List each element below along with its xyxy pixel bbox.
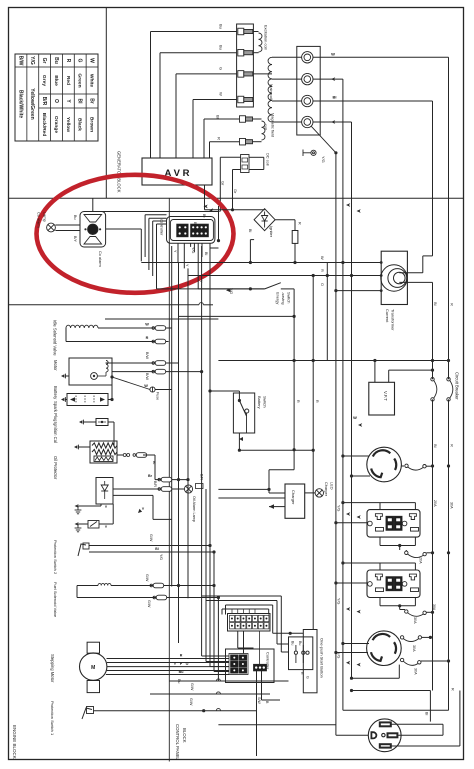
- wire terminal3 Bl to breaker bus: [313, 100, 433, 102]
- svg-text:Bl: Bl: [248, 229, 252, 232]
- wires CN2 pins up: [231, 609, 233, 614]
- svg-text:Motor: Motor: [53, 360, 58, 371]
- svg-text:W: W: [219, 92, 224, 96]
- twist-lock receptacle 1: [367, 447, 402, 482]
- switch 30A twist2 lower: [400, 658, 403, 661]
- wire CN4 feed: [259, 631, 261, 664]
- wire controller loop 4: [152, 221, 154, 276]
- wire twist2 feed 2: [336, 652, 368, 654]
- current transformer: [381, 251, 407, 304]
- wire gfci1 top: [343, 502, 416, 504]
- bus engine 3: [187, 268, 189, 598]
- motor starter: [69, 358, 112, 385]
- svg-text:Energy: Energy: [276, 292, 281, 304]
- magnetic field coil pins: [240, 116, 246, 123]
- terminal block TB1: [297, 46, 320, 135]
- svg-text:G: G: [77, 59, 83, 63]
- connector strip CN1: [237, 24, 254, 107]
- wire pins down 6: [201, 243, 203, 257]
- svg-text:O: O: [53, 99, 59, 103]
- magnetic field coil: [253, 118, 262, 120]
- wire twist1 feed 2: [352, 475, 371, 477]
- bus panel 5: [217, 598, 219, 682]
- wire battery right: [108, 399, 112, 401]
- motor connector arrow: [61, 374, 64, 377]
- svg-text:Bu: Bu: [179, 670, 184, 674]
- svg-text:GENERATOR BLOCK: GENERATOR BLOCK: [117, 151, 122, 193]
- svg-text:Gr: Gr: [41, 58, 47, 64]
- svg-text:B/W: B/W: [145, 373, 149, 380]
- svg-text:B/R: B/R: [41, 97, 47, 106]
- bus 351 vertical: [351, 276, 353, 678]
- wire CT input 3 YG: [335, 153, 337, 291]
- wire W run: [141, 262, 381, 264]
- wire AVR to pin4: [192, 100, 194, 159]
- wire recept feed YG: [336, 734, 368, 736]
- wire VFT top 1: [374, 361, 376, 383]
- svg-text:Bl: Bl: [77, 99, 83, 105]
- svg-text:Grey: Grey: [41, 75, 47, 86]
- wire charger staircase: [293, 450, 295, 470]
- wire charger input 2: [218, 497, 285, 499]
- circuit breaker: [431, 378, 434, 381]
- wire terminal4 to bus: [313, 121, 352, 123]
- bus Bl below breaker: [432, 399, 434, 690]
- svg-text:Bl: Bl: [333, 95, 337, 100]
- ground oil protector 1: [78, 505, 101, 507]
- svg-text:Y/G: Y/G: [159, 554, 163, 560]
- controller connector pins left: [177, 224, 188, 237]
- arrow mark 1: [75, 504, 79, 508]
- svg-text:Charger: Charger: [291, 490, 296, 505]
- svg-text:R: R: [296, 400, 300, 403]
- oil protector: [96, 478, 113, 505]
- GFCI receptacle 2: [367, 570, 420, 598]
- charger: [285, 484, 305, 518]
- wire terminal2 to CT bus: [313, 78, 343, 80]
- oil alarm lamp: [184, 485, 192, 493]
- DC coil: [241, 155, 249, 173]
- svg-text:Bu: Bu: [219, 45, 224, 50]
- svg-text:Gr: Gr: [220, 181, 225, 186]
- wire Gr from DC coil: [220, 156, 240, 158]
- svg-text:Idle Solenoid Valve: Idle Solenoid Valve: [53, 320, 58, 356]
- wire twist1 feed 1: [343, 455, 369, 457]
- svg-text:Switch: Switch: [263, 396, 268, 408]
- spark plug connector arrow: [79, 420, 82, 423]
- svg-text:30A: 30A: [413, 617, 417, 624]
- wire CT secondary 2: [399, 281, 432, 283]
- receptacle 120/240V: [368, 719, 401, 752]
- svg-text:Fuse: Fuse: [156, 392, 160, 400]
- svg-text:Igniter: Igniter: [269, 226, 274, 238]
- wire recept feed 2: [343, 709, 449, 711]
- protection switch 2: [78, 544, 86, 556]
- CO alarm lamp: [47, 223, 56, 232]
- svg-text:G/W: G/W: [149, 534, 153, 542]
- svg-text:30A: 30A: [450, 502, 454, 509]
- vertical bus 327: [326, 263, 328, 361]
- svg-text:White: White: [88, 74, 94, 88]
- wire psw2 2: [89, 551, 214, 553]
- svg-text:R: R: [315, 400, 319, 403]
- wire pins down Y/G: [177, 243, 179, 262]
- bus panel 1: [201, 246, 203, 656]
- svg-text:G/W: G/W: [145, 574, 149, 582]
- wire color legend table: [15, 54, 98, 141]
- arrow marks CT: [346, 203, 350, 207]
- wire 319 run: [105, 318, 218, 320]
- svg-text:Switch: Switch: [287, 292, 292, 303]
- wire pin right: [209, 243, 211, 248]
- protection switch 1: [82, 708, 92, 719]
- svg-text:Bu: Bu: [291, 641, 295, 645]
- svg-text:R: R: [300, 672, 304, 675]
- svg-text:Oil Alarm Lamp: Oil Alarm Lamp: [192, 496, 196, 522]
- junction controller right: [217, 239, 220, 242]
- svg-text:O: O: [186, 662, 189, 666]
- controller block box: [226, 649, 275, 683]
- bus panel 4: [213, 552, 215, 672]
- arrow marks row2: [346, 512, 350, 516]
- svg-text:B/Y: B/Y: [73, 236, 77, 242]
- svg-text:R: R: [451, 688, 455, 691]
- bus Bl vertical right: [432, 101, 434, 256]
- svg-text:-saving: -saving: [281, 292, 286, 305]
- battery switch: [233, 393, 254, 433]
- svg-text:Bl: Bl: [152, 461, 156, 464]
- wire lamp to CO alarm: [55, 224, 80, 226]
- svg-text:30A: 30A: [432, 604, 436, 611]
- resistor R1: [292, 231, 298, 244]
- vertical bus 313: [312, 275, 314, 451]
- wire controller loop 1: [93, 211, 220, 213]
- svg-text:Co alarm: Co alarm: [98, 251, 103, 267]
- svg-text:Fuel Solenoid Valve: Fuel Solenoid Valve: [53, 582, 58, 618]
- connector CN2: [228, 614, 271, 632]
- wire CO alarm to controller: [106, 228, 142, 230]
- svg-text:B/R: B/R: [200, 474, 204, 480]
- wire CN2 loop 4: [202, 595, 282, 597]
- svg-text:W: W: [144, 384, 148, 388]
- wire bottom h4: [218, 724, 335, 726]
- svg-text:G: G: [219, 67, 224, 70]
- wires bundle fan to CN3: [202, 655, 229, 657]
- svg-text:Ignition Cal: Ignition Cal: [53, 422, 58, 443]
- wire bottom h3: [216, 709, 220, 711]
- wire ignition out: [117, 454, 123, 456]
- svg-text:Bl: Bl: [425, 712, 429, 715]
- svg-text:Magnetic field: Magnetic field: [271, 113, 276, 137]
- ground generator: [311, 126, 336, 153]
- wire to battery switch: [210, 390, 239, 392]
- svg-text:Bu: Bu: [177, 679, 181, 683]
- svg-text:30A: 30A: [412, 645, 416, 652]
- wire CN2 pins drop: [237, 631, 239, 648]
- wire bottom h2: [150, 693, 270, 695]
- svg-text:V.F.T: V.F.T: [383, 391, 388, 401]
- wire to energy switch: [198, 288, 265, 290]
- svg-text:Black/White: Black/White: [17, 90, 23, 119]
- svg-text:Bl: Bl: [155, 547, 158, 551]
- wire CT input 1: [342, 79, 344, 264]
- wire controller loop 3: [149, 217, 167, 219]
- wire oil protector to lamp: [113, 488, 184, 490]
- wire AVR to pin3: [175, 74, 177, 158]
- svg-text:G/W: G/W: [190, 683, 194, 691]
- svg-text:Protection Switch 1: Protection Switch 1: [50, 701, 55, 736]
- bus 342 vertical: [342, 264, 344, 711]
- op-amp AVR U1: [142, 158, 212, 185]
- svg-text:Battery: Battery: [53, 386, 58, 400]
- wire idle W: [98, 327, 172, 329]
- svg-text:Bl: Bl: [204, 252, 208, 255]
- bus panel 3: [209, 246, 211, 667]
- wire motor diagonal: [110, 375, 113, 378]
- wire recept right: [397, 734, 443, 736]
- wire recept feed 1: [352, 690, 431, 692]
- svg-text:G: G: [306, 676, 310, 679]
- svg-text:R: R: [298, 222, 302, 225]
- svg-text:Green: Green: [77, 73, 83, 87]
- svg-text:Oil Protector: Oil Protector: [53, 456, 58, 480]
- wire oil protector lower: [113, 494, 153, 496]
- wire fuel GW 1: [111, 585, 214, 587]
- wire pins down 4: [193, 243, 195, 252]
- wire O run: [157, 288, 265, 290]
- wire pins down 2: [183, 243, 185, 268]
- svg-text:Bl: Bl: [433, 302, 438, 306]
- svg-text:Bu: Bu: [53, 57, 59, 64]
- svg-text:R: R: [217, 137, 222, 140]
- wire YG labels arrows: [346, 661, 350, 665]
- wire charger arrow: [269, 506, 285, 508]
- svg-text:Battery: Battery: [257, 396, 262, 409]
- svg-text:W: W: [353, 415, 357, 420]
- arrow mark 2: [75, 522, 79, 526]
- svg-text:One-push Start Button: One-push Start Button: [320, 638, 325, 678]
- wire pins down 3: [190, 243, 192, 247]
- switch 30A twist2 upper: [400, 636, 403, 639]
- generator block boundary: [9, 197, 464, 199]
- GFCI receptacle 1: [367, 510, 420, 537]
- charger LED: [305, 492, 315, 494]
- switch 20A row2: [405, 551, 408, 554]
- wire AVR to pin2: [159, 53, 161, 158]
- svg-text:Bu: Bu: [298, 641, 302, 645]
- wire psw2 GW: [89, 545, 210, 547]
- wire fuel GW 2: [77, 597, 218, 599]
- wire controller loop 2: [145, 214, 166, 216]
- connector CN4: [254, 664, 267, 671]
- one-push start button: [289, 637, 313, 670]
- wires stepping motor: [107, 658, 230, 660]
- svg-text:S/W: S/W: [257, 697, 261, 704]
- wire CO alarm top to divider: [92, 198, 94, 211]
- svg-text:Excitation coil: Excitation coil: [264, 25, 269, 50]
- svg-text:BLOCK: BLOCK: [182, 728, 187, 743]
- svg-text:R: R: [146, 336, 149, 340]
- svg-text:Bu: Bu: [193, 222, 197, 227]
- svg-text:Protection Switch 2: Protection Switch 2: [53, 540, 58, 575]
- wire twist2 bottom: [350, 677, 353, 680]
- fuel solenoid valve: [98, 583, 111, 585]
- svg-text:R: R: [65, 59, 71, 63]
- wires CN4 down SW: [256, 671, 258, 756]
- svg-text:Bu: Bu: [219, 24, 224, 29]
- wire battery switch down: [238, 433, 240, 450]
- svg-text:ENGINE BLOCK: ENGINE BLOCK: [12, 725, 17, 759]
- wire R run: [188, 275, 381, 277]
- svg-text:Main coil: Main coil: [269, 84, 274, 100]
- wire CT input 2: [351, 122, 353, 276]
- bus R vertical right: [448, 57, 450, 379]
- svg-text:R: R: [450, 444, 455, 447]
- switch 20A row3: [405, 610, 408, 613]
- fuse: [150, 387, 155, 392]
- svg-text:R: R: [320, 269, 325, 272]
- svg-text:DC coil: DC coil: [266, 153, 271, 166]
- svg-text:W: W: [145, 323, 149, 327]
- svg-text:Y/G: Y/G: [321, 156, 326, 163]
- wire gfci2 left: [336, 582, 368, 584]
- svg-text:Blue: Blue: [53, 75, 59, 86]
- svg-text:O: O: [320, 283, 325, 286]
- svg-text:B/W: B/W: [145, 352, 149, 359]
- wire bottom h1: [169, 680, 288, 682]
- bus YG vertical: [335, 291, 337, 736]
- wire pins down 5: [197, 243, 199, 288]
- bus engine 2: [178, 262, 180, 643]
- wire motor BW 2: [112, 371, 202, 373]
- svg-text:20A: 20A: [433, 500, 437, 507]
- wire gfci1 left: [336, 522, 368, 524]
- svg-text:Black: Black: [77, 118, 83, 131]
- battery: [67, 394, 108, 406]
- svg-text:Stepping Motor: Stepping Motor: [50, 654, 55, 683]
- main coil taps to terminals: [272, 56, 302, 58]
- bus R below breaker: [448, 399, 450, 710]
- wire CN2 loop 3: [206, 600, 277, 602]
- svg-text:Current: Current: [385, 309, 390, 323]
- wire terminal1 W to breaker bus: [313, 56, 449, 58]
- wire Gr 2: [233, 169, 241, 171]
- svg-text:R: R: [180, 654, 183, 658]
- svg-text:controller: controller: [160, 219, 165, 236]
- twist-lock receptacle 2: [367, 631, 402, 666]
- engine block boundary: [9, 304, 200, 306]
- svg-text:20A: 20A: [419, 557, 423, 564]
- svg-text:G/W: G/W: [147, 600, 151, 608]
- svg-text:W: W: [320, 256, 325, 260]
- slash box: [88, 521, 99, 529]
- wire 450 run: [239, 449, 313, 451]
- oil lamp resistor: [196, 484, 204, 489]
- connector CN3: [229, 654, 248, 675]
- wire charger input: [218, 488, 269, 490]
- wire twist2 feed 1: [343, 643, 369, 645]
- svg-text:Orange: Orange: [53, 116, 59, 133]
- wire gfci2 bottom: [379, 598, 381, 606]
- wire long 360: [218, 360, 448, 362]
- svg-text:coil: coil: [264, 124, 269, 130]
- wire igniter top: [205, 209, 265, 211]
- energy-saving switch: [265, 283, 281, 289]
- svg-text:B/R: B/R: [153, 481, 157, 487]
- svg-text:Y/G: Y/G: [337, 505, 341, 511]
- wire gfci2 top: [343, 562, 416, 564]
- wire gfci1 bottom: [379, 537, 381, 545]
- svg-text:Transformer: Transformer: [391, 309, 396, 331]
- excitation coil: [253, 31, 258, 33]
- svg-text:LED: LED: [330, 482, 335, 490]
- wire CT secondary 1: [399, 272, 423, 274]
- svg-text:Co alarm: Co alarm: [37, 212, 42, 228]
- bus panel 2: [205, 489, 207, 662]
- svg-text:Yellow/Green: Yellow/Green: [29, 88, 35, 119]
- svg-text:B/W: B/W: [17, 56, 23, 66]
- igniter: [254, 209, 275, 231]
- svg-text:R: R: [450, 303, 455, 306]
- ignition coil connector arrow: [74, 445, 77, 448]
- svg-text:M: M: [91, 665, 95, 671]
- svg-text:30A: 30A: [414, 668, 418, 675]
- svg-text:Y/G: Y/G: [337, 598, 341, 604]
- svg-text:Circuit Breaker: Circuit Breaker: [455, 372, 460, 400]
- wire VFT top 2: [388, 370, 390, 382]
- svg-text:Red: Red: [65, 76, 71, 85]
- wire controller loop 5: [156, 224, 158, 289]
- wire AVR to field pin2: [209, 142, 211, 158]
- svg-text:Bl: Bl: [216, 115, 221, 119]
- svg-text:Black/Red: Black/Red: [41, 113, 47, 137]
- wire spark plug to coil: [108, 421, 114, 423]
- battery connector arrow: [61, 398, 64, 401]
- switch 20A row1: [401, 465, 404, 467]
- svg-text:Brown: Brown: [88, 117, 94, 132]
- CO alarm sensor: [80, 212, 106, 248]
- svg-text:Lamp: Lamp: [43, 212, 48, 222]
- main coil: [268, 57, 272, 122]
- svg-text:Br: Br: [148, 474, 153, 478]
- ground oil protector 2: [78, 523, 88, 525]
- junction ground bus: [334, 151, 337, 154]
- wire 316 run: [178, 315, 294, 317]
- svg-text:Y/G: Y/G: [229, 288, 233, 294]
- wire igniter left Bl: [249, 240, 251, 263]
- arrow marks row3: [346, 607, 350, 611]
- wire AVR to field pin1: [203, 119, 205, 158]
- svg-text:Spark Plug: Spark Plug: [53, 401, 58, 422]
- idle solenoid valve: [66, 325, 98, 328]
- wire button bus: [312, 450, 314, 629]
- stepping motor: [87, 642, 99, 653]
- wire psw1: [94, 710, 258, 712]
- wire motor BW 1: [106, 362, 179, 364]
- highlight ellipse CO-alarm area: [37, 175, 234, 293]
- ignition coil: [90, 441, 117, 463]
- wire CN2 drop2: [243, 631, 245, 654]
- svg-text:Br: Br: [88, 98, 94, 104]
- bus engine 1: [171, 246, 173, 587]
- svg-text:Bu: Bu: [73, 215, 77, 220]
- vertical bus 294: [293, 289, 295, 450]
- svg-text:W: W: [88, 58, 94, 63]
- arrow marks top: [204, 205, 208, 209]
- spark plug: [96, 419, 108, 426]
- svg-text:W: W: [331, 52, 335, 57]
- V.F.T module: [369, 382, 395, 415]
